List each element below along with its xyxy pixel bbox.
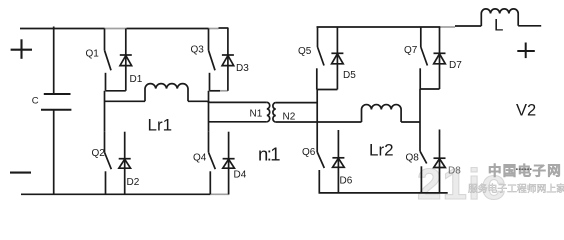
svg-text:Q1: Q1: [86, 49, 100, 60]
svg-text:n:1: n:1: [258, 144, 280, 165]
svg-text:C: C: [32, 96, 39, 107]
svg-text:Q8: Q8: [406, 153, 420, 164]
svg-text:N1: N1: [250, 109, 263, 120]
svg-text:Q4: Q4: [193, 153, 207, 164]
svg-text:V2: V2: [516, 102, 536, 120]
svg-text:D4: D4: [234, 170, 247, 181]
svg-text:N2: N2: [283, 112, 296, 123]
svg-text:Q6: Q6: [302, 147, 316, 158]
svg-text:Q3: Q3: [191, 45, 205, 56]
svg-text:D3: D3: [236, 63, 249, 74]
svg-text:Lr1: Lr1: [148, 116, 173, 135]
svg-text:Lr2: Lr2: [369, 141, 394, 160]
svg-text:L: L: [494, 16, 503, 35]
svg-text:服务电子工程师网上家园/式: 服务电子工程师网上家园/式: [468, 182, 564, 195]
svg-text:D8: D8: [448, 166, 461, 177]
svg-text:Q2: Q2: [92, 148, 106, 159]
svg-text:中国电子网: 中国电子网: [488, 163, 562, 179]
svg-text:D1: D1: [130, 74, 143, 85]
svg-text:Q7: Q7: [404, 45, 418, 56]
svg-text:D2: D2: [127, 177, 140, 188]
svg-text:Q5: Q5: [298, 46, 312, 57]
svg-text:D5: D5: [343, 70, 356, 81]
svg-text:D7: D7: [449, 60, 462, 71]
svg-text:D6: D6: [340, 176, 353, 187]
